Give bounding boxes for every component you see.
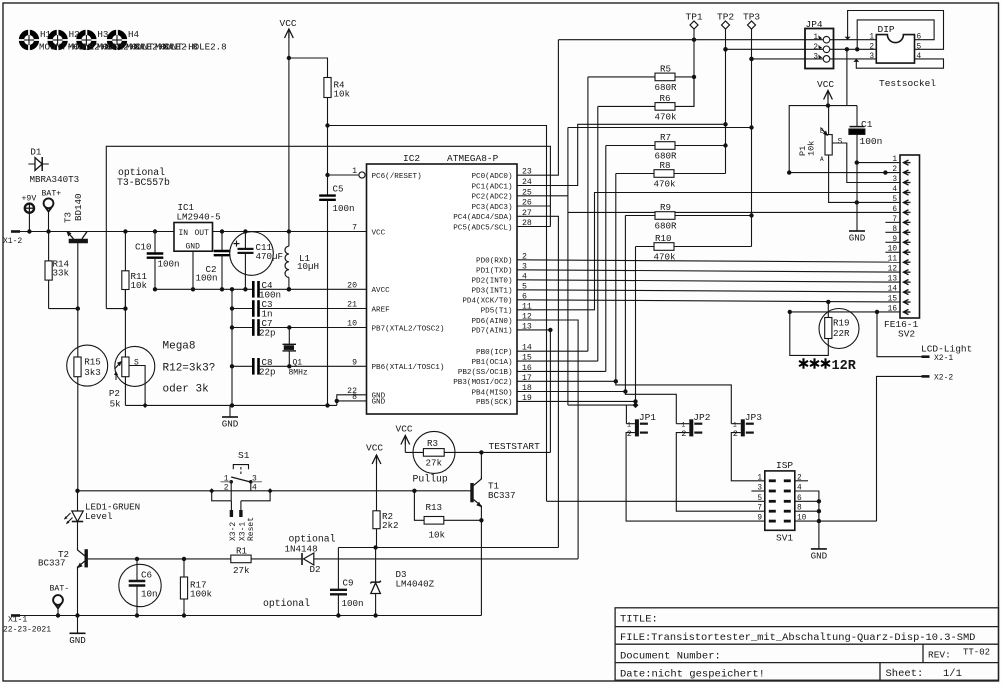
transistor T3 BD140 PNP	[69, 239, 88, 244]
svg-text:VCC: VCC	[372, 229, 386, 237]
terminal X2-1 LCD-Light	[877, 312, 922, 357]
svg-text:SV2: SV2	[898, 329, 915, 340]
svg-text:5k: 5k	[110, 399, 122, 410]
svg-text:22p: 22p	[259, 367, 276, 378]
svg-text:470k: 470k	[654, 252, 677, 263]
svg-text:GND: GND	[372, 399, 386, 407]
svg-text:1: 1	[892, 156, 897, 164]
wire R10 left bus to JP1 row	[635, 247, 637, 406]
svg-text:P2: P2	[109, 388, 120, 399]
wire reset row to ISP pin5	[547, 500, 765, 502]
label ***12R	[802, 358, 804, 368]
wire PD3 to LCD pin14	[517, 290, 900, 292]
LED LED1-GRUEN	[75, 489, 79, 493]
svg-text:3: 3	[813, 53, 818, 61]
resistor R11 10k	[124, 232, 126, 271]
capacitor C4 100n	[252, 281, 255, 298]
svg-text:Reset: Reset	[247, 517, 256, 541]
wire R9 left bus to JP2 row	[625, 216, 676, 424]
transistor T1 BC337	[470, 483, 473, 502]
svg-text:9: 9	[352, 358, 357, 367]
svg-text:21: 21	[347, 301, 357, 310]
connector SV2 FE16-1 box	[900, 155, 920, 318]
svg-text:1: 1	[813, 34, 818, 42]
wire LED junction to S1 and T1 base	[78, 490, 472, 492]
svg-text:1/1: 1/1	[943, 668, 962, 680]
wire JP1 to ISP pin9	[626, 433, 765, 521]
svg-text:1: 1	[224, 475, 229, 484]
svg-text:VCC: VCC	[366, 443, 383, 454]
svg-text:PB4(MISO): PB4(MISO)	[471, 389, 512, 397]
capacitor C8 22p	[232, 365, 253, 367]
wire P1 bottom to LCD pin5 row	[829, 155, 900, 202]
svg-text:H3: H3	[97, 29, 108, 40]
svg-text:PD7(AIN1): PD7(AIN1)	[471, 328, 512, 336]
terminal X1-2	[11, 230, 20, 233]
svg-text:PD6(AIN0): PD6(AIN0)	[471, 318, 512, 326]
svg-text:6: 6	[917, 34, 922, 42]
wire JP3 pin1 feed	[731, 423, 741, 425]
wire pin19 PB5 to R10 bus	[517, 400, 636, 402]
svg-text:PC4(ADC4/SDA): PC4(ADC4/SDA)	[453, 214, 512, 222]
pad +9V	[25, 204, 34, 213]
capacitor C6 10n circled	[119, 564, 161, 606]
svg-text:GND: GND	[186, 243, 201, 252]
svg-text:3: 3	[892, 176, 897, 184]
wire JP2 pin1 feed	[676, 423, 689, 425]
svg-text:Document Number:: Document Number:	[620, 651, 721, 663]
svg-text:LM4040Z: LM4040Z	[396, 579, 435, 590]
wire bus pin26 to optional loop	[517, 205, 550, 207]
wire bus pin27 to reference line	[517, 216, 558, 547]
svg-text:AREF: AREF	[372, 306, 391, 314]
svg-text:7: 7	[892, 216, 897, 224]
wire reset to ISP (long horizontal)	[328, 126, 547, 502]
wire JP1 pin1 feed	[626, 423, 635, 425]
resistor R4 10k	[324, 78, 331, 98]
svg-text:BD140: BD140	[73, 193, 84, 221]
svg-text:100n: 100n	[860, 136, 883, 147]
svg-text:470k: 470k	[654, 179, 677, 190]
svg-text:Testsockel: Testsockel	[879, 78, 936, 89]
svg-text:470µF: 470µF	[256, 251, 284, 262]
svg-text:100n: 100n	[196, 273, 218, 284]
potentiometer P2 5k circled	[115, 346, 155, 386]
svg-text:JP3: JP3	[745, 412, 762, 423]
wire VCC stem	[288, 38, 290, 232]
svg-text:PC1(ADC1): PC1(ADC1)	[471, 183, 512, 191]
wire R6 left bus	[597, 106, 599, 361]
wire S1 contacts	[230, 482, 232, 501]
transistor T2 BC337	[84, 549, 87, 567]
svg-text:PB7(XTAL2/TOSC2): PB7(XTAL2/TOSC2)	[372, 325, 445, 333]
wire test row2	[726, 48, 877, 50]
svg-text:680R: 680R	[655, 82, 678, 93]
svg-text:10: 10	[888, 246, 898, 254]
svg-text:13: 13	[888, 276, 898, 284]
svg-text:PD0(RXD): PD0(RXD)	[476, 258, 512, 266]
svg-text:PB2(SS/OC1B): PB2(SS/OC1B)	[458, 369, 513, 377]
wire LCD pin6 row	[568, 211, 900, 213]
svg-text:15: 15	[888, 296, 898, 304]
svg-text:JP1: JP1	[639, 412, 656, 423]
wire TESTSTART	[481, 451, 550, 453]
mounting hole H2	[50, 32, 65, 47]
svg-text:100n: 100n	[333, 203, 355, 214]
pad X3-1	[240, 501, 242, 510]
svg-text:27k: 27k	[233, 565, 250, 576]
svg-text:R3: R3	[427, 438, 438, 449]
svg-text:11: 11	[888, 256, 898, 264]
svg-text:10k: 10k	[807, 141, 817, 156]
svg-text:Pullup: Pullup	[413, 474, 448, 485]
wire R1 to D2	[251, 558, 302, 560]
ground bus wire left of IC2	[155, 288, 253, 290]
svg-text:14: 14	[888, 286, 898, 294]
capacitor C2 100n	[221, 232, 223, 252]
svg-text:10n: 10n	[141, 589, 158, 600]
svg-text:LCD-Light: LCD-Light	[921, 344, 972, 355]
svg-text:C10: C10	[135, 242, 152, 253]
capacitor C5 100n	[319, 194, 336, 196]
wire reference line R2 C9 D3	[338, 547, 558, 549]
wire ISP pin2 stub	[795, 480, 808, 482]
svg-text:PB3(MOSI/OC2): PB3(MOSI/OC2)	[453, 379, 512, 387]
optional T3 net wire (big loop)	[106, 146, 550, 308]
svg-text:C9: C9	[343, 578, 354, 589]
svg-text:LM2940-5: LM2940-5	[177, 212, 221, 223]
microcontroller IC2 ATMEGA8-P box	[367, 164, 518, 414]
wire LCD pin2 row VCC	[789, 172, 900, 174]
wire bus pin25 to TP3 via upper corridor	[517, 195, 568, 197]
svg-text:1: 1	[869, 34, 874, 42]
ground symbol ISP	[811, 548, 827, 550]
svg-text:3: 3	[252, 475, 257, 484]
resistor R10 470k	[636, 246, 655, 248]
wire PD5 to LCD pin4 row	[517, 193, 900, 310]
svg-text:S: S	[134, 359, 139, 368]
svg-text:optional: optional	[263, 598, 310, 609]
SV2 pin arrows and stubs	[904, 160, 909, 165]
wire LCD pin16 row	[790, 311, 900, 313]
resistor R13 10k	[414, 491, 424, 521]
svg-text:BAT+: BAT+	[42, 190, 62, 199]
svg-text:REV:: REV:	[928, 650, 951, 661]
svg-text:680R: 680R	[655, 221, 678, 232]
svg-text:PC3(ADC3): PC3(ADC3)	[471, 204, 512, 212]
wire TP2 drop to C1	[846, 49, 848, 105]
svg-text:2: 2	[733, 429, 738, 439]
svg-text:X2-2: X2-2	[934, 374, 953, 383]
svg-text:AVCC: AVCC	[372, 287, 391, 295]
wire P1 top loop	[789, 106, 857, 173]
svg-text:2: 2	[813, 44, 818, 52]
ground symbol C1	[849, 230, 865, 232]
wire R4 bottom / reset net vertical	[327, 98, 329, 196]
wire +9V rail	[20, 231, 174, 233]
svg-text:ATMEGA8-P: ATMEGA8-P	[447, 153, 499, 164]
electrolytic capacitor C11 470uF	[230, 232, 274, 276]
svg-text:Q1: Q1	[293, 359, 303, 368]
wire bus pin23 to test row1	[517, 40, 558, 176]
wire PD1 to LCD pin12	[517, 270, 900, 272]
svg-text:PB6(XTAL1/TOSC1): PB6(XTAL1/TOSC1)	[372, 364, 445, 372]
svg-text:100k: 100k	[190, 589, 213, 600]
GND rail bottom left	[125, 404, 336, 406]
svg-text:5: 5	[917, 43, 922, 51]
svg-text:8: 8	[892, 226, 897, 234]
DIP test socket body	[876, 35, 914, 64]
wire T2 emitter to rail	[77, 569, 79, 616]
ground symbol battery	[77, 616, 79, 634]
svg-text:SV1: SV1	[776, 533, 793, 544]
resistor R8 470k	[616, 173, 654, 175]
wire bus pin24 to TP2 via upper corridor	[517, 124, 726, 185]
wire DIP bottom loop pin4	[856, 59, 943, 68]
svg-text:H4: H4	[128, 29, 140, 40]
terminal X1-1	[11, 614, 20, 617]
svg-text:100n: 100n	[342, 598, 364, 609]
svg-text:+9V: +9V	[22, 194, 37, 203]
svg-text:R19: R19	[833, 318, 850, 329]
resistor R5 680R	[588, 76, 655, 78]
svg-text:X1-1: X1-1	[8, 616, 27, 625]
wire bus pin28 to optional loop	[517, 226, 550, 228]
wire TP2 vertical	[725, 29, 727, 174]
SV1 pin pads	[769, 479, 776, 482]
svg-text:VCC: VCC	[280, 18, 297, 29]
svg-text:GND: GND	[811, 550, 828, 561]
svg-text:2: 2	[681, 429, 686, 439]
svg-text:oder 3k: oder 3k	[163, 384, 210, 396]
svg-text:Level: Level	[85, 511, 113, 522]
svg-text:IC2: IC2	[403, 153, 420, 164]
resistor R17 100k	[183, 559, 185, 577]
svg-text:PD5(T1): PD5(T1)	[481, 308, 513, 316]
svg-text:PD1(TXD): PD1(TXD)	[476, 268, 512, 276]
svg-text:5: 5	[892, 196, 897, 204]
IC2 pin 1 inversion bubble	[359, 172, 365, 178]
svg-text:12: 12	[888, 266, 898, 274]
svg-text:R13: R13	[426, 502, 443, 513]
svg-text:R12=3k3?: R12=3k3?	[163, 363, 216, 375]
resistor R3 27k pullup circled	[413, 431, 455, 473]
svg-text:22p: 22p	[259, 328, 276, 339]
svg-text:MOUNT-HOLE2.8: MOUNT-HOLE2.8	[155, 42, 227, 53]
potentiometer P1 10k	[825, 135, 832, 155]
svg-text:PC6(/RESET): PC6(/RESET)	[372, 173, 422, 181]
svg-text:1N4148: 1N4148	[285, 544, 318, 555]
svg-text:PC2(ADC2): PC2(ADC2)	[471, 194, 512, 202]
svg-text:BAT-: BAT-	[50, 585, 70, 594]
wire pin14 PB0 to R5 bus	[517, 350, 588, 352]
svg-text:470k: 470k	[655, 111, 678, 122]
svg-text:MBRA340T3: MBRA340T3	[30, 174, 80, 185]
svg-text:8MHz: 8MHz	[289, 369, 308, 378]
wire ISP pin3 stub	[751, 490, 764, 492]
svg-text:22R: 22R	[833, 328, 850, 339]
svg-text:10: 10	[347, 320, 357, 329]
wire pin15 PB1 to R6 bus	[517, 360, 598, 362]
capacitor C9 100n	[337, 548, 339, 589]
svg-text:OUT: OUT	[195, 229, 210, 238]
capacitor C7 22p	[232, 327, 253, 329]
pad BAT+	[44, 198, 54, 208]
svg-text:C1: C1	[861, 119, 873, 130]
svg-text:2: 2	[627, 429, 632, 439]
svg-text:R15: R15	[84, 357, 101, 368]
wire PD0 to LCD pin11	[517, 260, 900, 262]
svg-text:PD2(INT0): PD2(INT0)	[471, 278, 512, 286]
wire test row3	[752, 58, 877, 60]
capacitor C1 100n	[856, 106, 858, 126]
svg-text:X2-1: X2-1	[934, 354, 953, 363]
svg-text:R1: R1	[236, 546, 248, 557]
svg-text:BC337: BC337	[488, 490, 516, 501]
svg-text:C6: C6	[141, 570, 152, 581]
resistor R7 680R	[606, 145, 655, 147]
wire VCC to R4	[289, 58, 328, 78]
svg-text:GND: GND	[849, 233, 866, 244]
wire T1 base	[471, 490, 472, 492]
svg-text:Mega8: Mega8	[163, 341, 196, 353]
svg-text:PC0(ADC0): PC0(ADC0)	[471, 173, 512, 181]
capacitor C3 1n	[232, 308, 253, 310]
wire ISP ground pins 4 6 8 10	[795, 491, 819, 549]
wire S1 lower loop	[212, 491, 232, 501]
svg-text:IN: IN	[179, 229, 189, 238]
inductor L1 10uH	[285, 246, 289, 277]
wire T1 collector to TESTSTART	[480, 452, 482, 479]
svg-text:GND: GND	[222, 419, 239, 430]
svg-text:JP2: JP2	[693, 412, 710, 423]
svg-text:10µH: 10µH	[297, 261, 319, 272]
svg-text:22-23-2021: 22-23-2021	[3, 626, 51, 635]
svg-text:PB0(ICP): PB0(ICP)	[476, 349, 512, 357]
svg-text:C5: C5	[333, 184, 344, 195]
wire TESTSTART vertical pin13	[549, 330, 551, 453]
svg-text:TT-02: TT-02	[963, 648, 990, 658]
pad X3-2	[230, 501, 232, 510]
wire reset to IC2 pin1	[328, 174, 360, 176]
wire T1 emitter to R13 junction	[480, 508, 482, 616]
voltage regulator IC1 LM2940-5	[174, 223, 213, 252]
svg-text:Sheet:: Sheet:	[886, 668, 924, 680]
svg-text:2k2: 2k2	[382, 520, 399, 531]
svg-text:T3-BC557b: T3-BC557b	[117, 177, 170, 188]
terminal X2-2	[877, 376, 922, 521]
wire P2 wiper to GND rail	[129, 366, 145, 406]
svg-text:X3-2: X3-2	[229, 522, 238, 541]
svg-text:6: 6	[892, 206, 897, 214]
svg-text:S1: S1	[238, 450, 250, 461]
svg-text:4: 4	[892, 186, 897, 194]
svg-text:7: 7	[352, 224, 357, 233]
svg-text:TITLE:: TITLE:	[620, 614, 658, 626]
svg-text:X1-2: X1-2	[3, 237, 22, 246]
svg-text:D1: D1	[30, 147, 42, 158]
wire PD7 TESTSTART vertical	[517, 329, 550, 331]
wire D2 to bus	[314, 558, 578, 560]
svg-text:9: 9	[892, 236, 897, 244]
wire PD4 to LCD pin15	[517, 300, 900, 302]
crystal Q1 8MHz	[288, 328, 290, 345]
svg-text:2: 2	[797, 474, 802, 482]
mounting hole H3	[79, 32, 94, 47]
mounting hole H1	[21, 32, 36, 47]
svg-text:2: 2	[869, 43, 874, 51]
resistor R9 680R	[625, 215, 655, 217]
wire test row1	[558, 39, 876, 41]
wire pin17 PB3 to R8 bus	[517, 380, 616, 382]
capacitor C10 100n	[154, 232, 156, 254]
svg-text:S: S	[838, 138, 843, 147]
wire pin18 PB4 to R9 bus	[517, 391, 625, 393]
svg-text:1: 1	[681, 422, 685, 429]
wire JP2 to ISP pin7	[676, 433, 765, 512]
svg-text:PD3(INT1): PD3(INT1)	[471, 288, 512, 296]
wire DIP inner loop pin6	[857, 20, 934, 49]
svg-text:VCC: VCC	[396, 424, 413, 435]
svg-text:3k3: 3k3	[84, 367, 101, 378]
svg-text:PC5(ADC5/SCL): PC5(ADC5/SCL)	[453, 224, 512, 232]
resistor R2 2k2	[376, 464, 378, 511]
wire LCD pin1 row	[857, 162, 900, 164]
svg-text:T3: T3	[63, 212, 74, 223]
svg-text:GND: GND	[69, 635, 86, 646]
resistor R14 33k	[48, 232, 50, 261]
wire P1 wiper to LCD pin3	[832, 143, 900, 183]
diode D3 LM4040Z zener	[375, 548, 377, 582]
wire P2 bottom to GND rail	[124, 377, 126, 406]
svg-text:20: 20	[347, 281, 357, 290]
wire JP3 to ISP pin1	[731, 433, 765, 481]
svg-text:1: 1	[733, 422, 737, 429]
svg-text:33k: 33k	[53, 268, 70, 279]
wire R5 left bus	[587, 77, 589, 351]
svg-text:PB5(SCK): PB5(SCK)	[476, 399, 512, 407]
svg-text:ISP: ISP	[776, 460, 793, 471]
svg-text:FILE:Transistortester_mit_Absc: FILE:Transistortester_mit_Abschaltung-Qu…	[620, 632, 975, 644]
wire R7 left bus	[605, 146, 607, 372]
svg-text:PD4(XCK/T0): PD4(XCK/T0)	[462, 298, 512, 306]
svg-text:PB1(OC1A): PB1(OC1A)	[471, 359, 512, 367]
svg-text:100n: 100n	[158, 259, 180, 270]
resistor R1 27k	[231, 555, 251, 563]
svg-text:BC337: BC337	[38, 558, 66, 569]
svg-text:DIP: DIP	[878, 24, 895, 35]
svg-text:3: 3	[869, 53, 874, 61]
wire TP1 vertical	[693, 29, 695, 106]
svg-text:10k: 10k	[334, 89, 351, 100]
wire pin16 PB2 to R7 bus	[517, 370, 606, 372]
wire IC1 GND down	[192, 251, 194, 289]
svg-text:2: 2	[892, 166, 897, 174]
wire DIP outer loop pin5	[848, 11, 944, 50]
ground symbol below C-bank	[229, 405, 231, 417]
svg-text:E: E	[820, 128, 824, 135]
wire T2 base line	[88, 558, 231, 560]
svg-text:4: 4	[917, 53, 922, 61]
mounting hole H4	[109, 32, 124, 47]
svg-text:12R: 12R	[832, 359, 857, 374]
wire bottom GND rail	[20, 615, 481, 617]
resistor R6 470k	[598, 105, 655, 107]
wire R19 bottom loop to LCD pin16 row	[790, 312, 829, 356]
resistor R19 22R circled	[819, 309, 859, 349]
svg-text:VCC: VCC	[817, 79, 834, 90]
svg-text:27k: 27k	[426, 458, 443, 469]
